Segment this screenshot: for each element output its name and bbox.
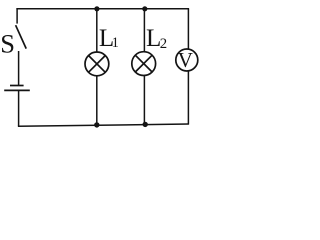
svg-text:1: 1 xyxy=(112,35,119,51)
wire voltmeter to bottom bus xyxy=(187,71,189,125)
lamp L1 label xyxy=(99,25,119,52)
wire lamp L1 to bottom bus xyxy=(96,76,98,126)
switch S blade xyxy=(16,25,27,48)
junction top node L1 xyxy=(94,6,99,11)
wire switch top stub xyxy=(16,8,18,23)
wire switch to battery xyxy=(18,51,20,85)
voltmeter V xyxy=(176,49,198,71)
junction top node L2 xyxy=(142,6,147,11)
wire top to voltmeter V xyxy=(187,9,189,50)
wire top bus xyxy=(16,8,189,10)
junction bottom node L2 xyxy=(143,122,148,127)
junction bottom node L1 xyxy=(94,122,99,127)
wire bottom bus xyxy=(18,124,189,126)
wire lamp L2 to bottom bus xyxy=(143,75,145,124)
wire battery to bottom bus xyxy=(18,90,20,126)
wire top to lamp L1 xyxy=(96,9,98,52)
battery positive plate (long) xyxy=(4,89,30,91)
svg-text:S: S xyxy=(0,29,15,59)
svg-text:V: V xyxy=(178,48,193,72)
lamp L1 xyxy=(85,52,109,76)
battery negative plate (short) xyxy=(10,85,24,87)
lamp L2 xyxy=(132,52,156,76)
wire top to lamp L2 xyxy=(143,9,145,52)
lamp L2 label xyxy=(146,25,167,52)
svg-text:2: 2 xyxy=(160,36,167,52)
